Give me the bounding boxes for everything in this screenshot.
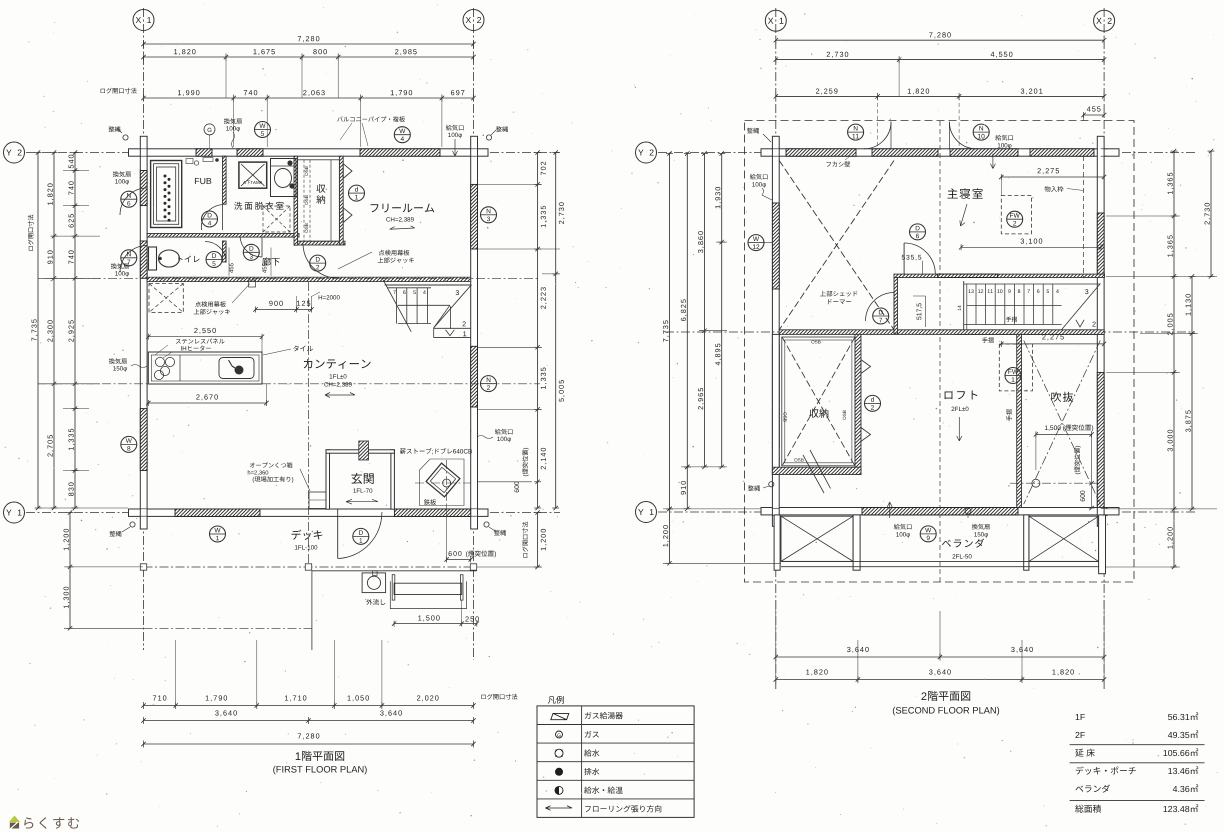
2F dimension 455 top right [1084, 114, 1105, 116]
bottom dim row 3,640/3,640 (1F) [144, 720, 474, 722]
2F exterior wall bottom (Y1) [761, 508, 1119, 515]
2F wall bedroom/stair horizontal [894, 274, 1105, 277]
legend symbol gas [556, 731, 563, 738]
1F storage OSB labels [305, 166, 308, 175]
2F dim 2,275 stair bottom [1042, 334, 1064, 340]
2F air inlet left label [750, 174, 768, 180]
2F storage label [809, 409, 828, 418]
area table total floor row [1075, 749, 1094, 757]
2F stair winder diagonal [1062, 284, 1101, 330]
2F door D7 [893, 293, 895, 322]
1F deck posts [140, 564, 146, 570]
dimension row 1,820/1,675/800/2,985 (1F) [144, 56, 474, 58]
1F vent fan label top [224, 118, 242, 124]
extension lines from top dims (1F) [233, 98, 235, 147]
1F stove plate label [424, 499, 436, 505]
2F storage door bubble d2 [865, 395, 881, 411]
1F kitchen room label [304, 359, 371, 369]
2F storage outer walls [772, 334, 779, 474]
1F window deck side (W1) [175, 509, 260, 516]
1F survey marker top-right [496, 126, 508, 132]
legend table frame [537, 706, 694, 818]
2F exterior wall right [1097, 136, 1104, 526]
grid axis Y1 (1F) [26, 512, 560, 514]
2F module dashed line 455 offset [1083, 156, 1085, 278]
1F kitchen burners [155, 357, 164, 366]
2F dimension 7,280 top [776, 39, 1104, 41]
2F left dim column 7,735/1,200 [669, 154, 671, 509]
1F deck door [337, 509, 339, 559]
1F toilet room label [178, 256, 199, 263]
right sub dim 600 chimney (1F) [534, 481, 541, 483]
2F window bubble N10 [973, 124, 989, 140]
2F dim 2,275 bedroom [1001, 176, 1104, 178]
1F window bubble N2 [481, 376, 497, 392]
2F wall stair bottom [955, 333, 1104, 335]
1F module line kitchen (dash-dot) [38, 383, 540, 385]
1F exterior wall left [140, 136, 147, 529]
1F stair treads [396, 288, 398, 324]
2F storage X brace [782, 337, 855, 466]
1F survey marker top-left [109, 126, 121, 132]
2F survey marker bottom-left [748, 485, 760, 491]
2F veranda bottom rail [781, 560, 1099, 562]
title 1F plan [296, 751, 344, 761]
1F corridor dim 455 right [262, 263, 266, 273]
1F kitchen counter [148, 352, 262, 384]
label log opening size (1F left, rotated) [28, 215, 34, 251]
2F right dim column 1,365/1,365/2,005/3,000/1,200 [1173, 151, 1175, 567]
dimension row 1,990/740/2,063/1,790/697 (1F) [144, 97, 474, 99]
dimension 7,280 top (1F) [144, 43, 474, 45]
2F top wall windows [786, 149, 856, 156]
1F bottom wall hatch right segment [394, 509, 470, 516]
2F dim 3,100 bedroom [961, 246, 1101, 248]
2F chimney dim 1,500 [1045, 424, 1093, 431]
2F dimension 2,730/4,550 [776, 59, 1104, 61]
1F deck door bubble D1 [353, 528, 369, 544]
1F outdoor sink label [366, 599, 385, 605]
1F window freeroom right (N3) [471, 184, 478, 249]
1F storage door label d1 [349, 185, 365, 201]
1F stair down arrow [446, 330, 455, 336]
legend text drainage [584, 768, 599, 775]
legend title [548, 696, 564, 704]
1F window bubble N6 [121, 191, 137, 207]
grid axis Y1 (2F) [658, 511, 1195, 513]
axis bubble Y2 (1F) [4, 142, 25, 163]
1F freeroom label [371, 204, 435, 213]
1F FUB door D4 [201, 205, 222, 230]
2F storage OSB labels [811, 340, 820, 343]
1F vent fan label left (toilet) [111, 263, 129, 269]
2F air inlet top label [995, 135, 1013, 141]
2F veranda right panel [1029, 516, 1099, 561]
legend symbol hot and cold water [555, 786, 563, 794]
2F exterior wall left [772, 136, 779, 526]
2F stair bottom handrail label [982, 337, 994, 343]
legend text gas water heater [585, 712, 623, 719]
axis bubble X1 (1F) [133, 10, 154, 31]
grid axis X2 (2F) [1103, 8, 1105, 690]
1F small window FUB top [196, 149, 212, 156]
2F closet bubble FW2 [1007, 211, 1023, 227]
2F veranda vent fan label [972, 524, 990, 530]
1F exterior wall right [471, 136, 478, 529]
1F outdoor sink [362, 573, 386, 593]
area table rule 3 [1070, 800, 1205, 802]
1F wall toilet right [223, 241, 227, 262]
2F dormer label [820, 291, 857, 297]
area table rule 1 [1070, 744, 1205, 746]
1F vent fan label left (FUB) [113, 171, 131, 177]
1F kitchen tile label [293, 345, 312, 351]
area table 2F row [1075, 732, 1084, 738]
1F exterior wall bottom [129, 509, 489, 516]
2F storage inner lining [782, 337, 855, 466]
2F bottom dim extension lines [939, 611, 941, 657]
2F void label [1051, 392, 1073, 402]
2F void X dash-dot [1024, 340, 1101, 504]
1F shoe box [309, 492, 326, 509]
1F washbasin [271, 159, 297, 197]
1F deck window bubble W1 [210, 526, 226, 542]
1F kitchen sink [219, 358, 254, 379]
axis bubble X2 (2F) [1094, 10, 1115, 31]
2F right wall window (void) [1097, 372, 1104, 507]
1F washroom dashed cabinet [263, 206, 290, 232]
1F inspection hatch dashed box [149, 284, 183, 313]
left dim column 1,820/910/2,300/2,705 (1F) [53, 153, 55, 509]
1F left side extension lines [63, 170, 89, 172]
2F stair top edge [964, 283, 1101, 285]
area table deck/porch row [1076, 767, 1136, 775]
2F loft closet dashed box FW1 [999, 344, 1032, 391]
2F fukashi wall label [826, 161, 850, 166]
2F stair handrail [967, 305, 1062, 307]
1F hatch inspection label (freeroom) [379, 250, 410, 256]
legend text hot/cold water [584, 787, 623, 794]
1F storage closet interior [298, 160, 340, 241]
1F corridor dim 455 left [229, 263, 233, 273]
1F hatch inspection label (corridor) [195, 301, 226, 307]
2F left dim column 3,860/2,965 [704, 154, 706, 467]
1F wood stove label [400, 448, 472, 454]
2F chimney mark [1032, 479, 1040, 487]
axis bubble X2 (1F) [463, 10, 484, 31]
left dim column 7,735 (1F) [37, 153, 39, 509]
1F deck side extension lines [64, 566, 143, 568]
1F stair mid lines [398, 304, 450, 306]
axis bubble Y2 (2F) [636, 142, 657, 163]
1F wall washroom/storage divider [294, 156, 298, 245]
2F survey marker top-left [747, 128, 759, 134]
2F right side extension lines [1106, 215, 1180, 217]
area table total area row [1075, 805, 1101, 813]
1F wall storage/freeroom divider [339, 156, 343, 245]
1F window freeroom top (W4) [360, 149, 440, 156]
1F window kitchen left (W8) [140, 409, 147, 471]
1F kitchen labels stainless/IH [176, 338, 225, 343]
legend symbol water supply [555, 749, 563, 757]
2F module line horizontal (dash-dot) [665, 331, 1195, 333]
1F corridor label [262, 257, 280, 265]
1F deck lower extension [312, 570, 477, 572]
right dim column 702/1,335/2,223/1,335/2,140 (1F) [537, 153, 539, 509]
logo text rakusumu [24, 817, 79, 829]
1F corridor door D2 [303, 244, 339, 278]
1F kitchen vent fan label [109, 358, 127, 364]
1F kitchen dim 2,550 [148, 336, 262, 338]
2F corner log crosses [772, 148, 779, 150]
logo house icon base [10, 823, 19, 829]
1F wall FUB/washroom divider [223, 156, 227, 204]
2F title [921, 691, 970, 701]
left dim 1,200/1,300 deck (1F) [69, 513, 71, 629]
1F exterior wall top [129, 149, 489, 156]
axis bubble X1 (2F) [765, 10, 786, 31]
1F interior wall below FUB/washroom [147, 234, 299, 238]
1F balcony pipe label [337, 116, 405, 122]
2F wall left room / bedroom stub [894, 278, 898, 335]
1F bench dims 1,500 / 250 [418, 615, 439, 621]
bottom dim 7,280 (1F) [144, 743, 474, 745]
1F air inlet right label [495, 429, 513, 435]
2F roof outline dashed [745, 121, 1135, 583]
2F veranda label [942, 539, 984, 548]
1F entrance label [351, 473, 373, 484]
1F shoe box label [250, 462, 293, 468]
2F window bubble N11 [848, 124, 864, 140]
2F bottom dim row 3,640/3,640 [776, 656, 1104, 658]
2F veranda side posts [853, 515, 860, 570]
2F left wall windows [772, 203, 779, 289]
2F veranda window bubble W9 [920, 526, 936, 542]
2F right dim column 1,130/3,875 [1191, 276, 1193, 509]
2F right dim column 2,730 [1210, 151, 1212, 276]
2F loft label [945, 390, 978, 399]
1F window bubble W8 [121, 436, 137, 452]
label log opening size (1F bottom) [481, 694, 517, 700]
1F gas meter bubble G [204, 124, 215, 135]
label log opening size (1F top) [101, 88, 137, 94]
2F left dim column 6,825 [686, 154, 688, 467]
grid axis X1 (1F) [143, 8, 145, 650]
1F stair height note H=2000 [319, 295, 340, 299]
grid axis Y2 (1F) [26, 152, 560, 154]
2F veranda left panel [781, 516, 853, 561]
1F stair lower box [433, 328, 435, 338]
axis bubble Y1 (1F) [4, 502, 25, 523]
1F freeroom floor direction arrow [390, 226, 415, 230]
2F module line vertical center (dashed) [939, 121, 941, 582]
1F window FUB left (N6) [140, 171, 147, 206]
2F extension lines from top dims [877, 96, 879, 148]
2F dormer X brace [779, 161, 894, 330]
1F storage room label (vertical) [317, 184, 326, 193]
legend symbol drainage [555, 768, 563, 776]
1F corridor bottom band [147, 277, 471, 281]
legend text water supply [584, 749, 599, 756]
axis bubble Y1 (2F) [636, 502, 657, 523]
1F right side extension lines [478, 183, 542, 185]
1F FUB fixtures top [186, 159, 193, 164]
2F bottom wall window hatch [862, 508, 1018, 515]
1F corner log cross marks [140, 148, 147, 150]
1F toilet door D5 [205, 241, 226, 262]
1F toilet fixture [149, 247, 157, 270]
2F dim 535.5 [902, 255, 922, 261]
1F entrance black post [359, 441, 369, 460]
2F dimension 2,259/1,820/3,201 [776, 95, 1104, 97]
area table 1F row [1076, 714, 1085, 720]
2F left dim column 1,930/4,895/910 [721, 154, 723, 467]
1F interior wall below storage [296, 241, 345, 245]
1F deck bottom edge [144, 566, 474, 568]
1F garden bench [394, 583, 462, 594]
legend text flooring direction [585, 805, 661, 812]
logo house icon roof [9, 816, 20, 823]
1F module line vertical center (dash-dot) [308, 282, 310, 567]
grid axis X2 (1F) [473, 8, 475, 660]
1F stair diagonals [383, 280, 411, 332]
1F stove hearth outline [420, 459, 465, 506]
1F chimney dim 600 horizontal [449, 551, 462, 556]
2F dim 517.5 [917, 303, 923, 319]
right dim 1,200 deck (1F) [537, 513, 539, 568]
1F kitchen dim 2,670 [148, 402, 266, 404]
1F air inlet label top-right [446, 125, 464, 131]
1F stove chimney mark [443, 479, 451, 487]
1F window bubble W5 [255, 122, 271, 138]
1F deck label [291, 530, 322, 540]
1F window bubble W4 [394, 127, 410, 143]
1F washroom door D3 [240, 237, 262, 258]
2F left side extension lines [716, 241, 727, 243]
2F stair left boundary [963, 281, 965, 330]
grid axis Y2 (2F) [658, 152, 1195, 154]
right dim column 2,730/5,005 (1F) [555, 153, 557, 509]
grid axis X1 (2F) [775, 8, 777, 690]
2F bedroom label [947, 188, 982, 199]
1F kitchen floor arrow [325, 393, 355, 398]
2F storage door marks [861, 360, 871, 374]
2F wall loft/void divider [1017, 334, 1022, 507]
legend text gas [585, 731, 599, 738]
1F window kitchen right (N2) [471, 346, 478, 407]
1F bathtub [151, 161, 182, 228]
extension lines bottom dims (1F) [175, 640, 177, 706]
2F exterior wall top [761, 149, 1119, 156]
1F stair landing lines [385, 284, 472, 286]
2F chimney dim 600 vertical [1091, 434, 1093, 508]
2F handrail label (loft/void wall) [1006, 409, 1012, 421]
2F bottom dim row 1,820/3,640/1,820 [776, 679, 1104, 681]
2F closet dashed box [1001, 195, 1031, 234]
1F washing machine [239, 162, 267, 188]
1F dim 900/125 under corridor [269, 301, 283, 306]
left dim column 540/740/625/740/2,925/1,335/830 (1F) [74, 153, 76, 509]
1F survey marker bottom-right [494, 530, 506, 536]
1F window toilet left (N7) [140, 241, 147, 278]
1F module line corridor (dash-dot) [44, 277, 540, 279]
area table rule 2 [1070, 762, 1205, 764]
2F wall mid module horizontal [779, 330, 1104, 335]
1F FUB room label [195, 178, 211, 184]
1F entrance floor arrow [346, 499, 378, 504]
2F closet label [1045, 186, 1064, 192]
2F stair bottom edge [964, 324, 1062, 326]
1F window bubble N3 [481, 207, 497, 223]
bottom dim row 710/1,790/1,710/1,050/2,020 (1F) [144, 705, 474, 707]
2F bedroom door D6 [903, 243, 905, 274]
2F window bubble W12 [748, 235, 764, 251]
legend symbol gas water heater [551, 713, 569, 719]
2F storage ladder line [810, 450, 831, 488]
1F window washroom top (W5) [237, 149, 263, 156]
1F washroom label [234, 202, 283, 210]
1F storage bifold door triangles [343, 164, 352, 179]
2F stair down arrow [1076, 320, 1084, 327]
2F veranda air inlet label [894, 524, 912, 530]
1F wood stove body [426, 463, 460, 497]
1F survey marker bottom-left [110, 531, 122, 537]
legend symbol flooring direction arrow [546, 806, 573, 811]
2F stair treads [975, 284, 977, 325]
area table veranda row [1075, 785, 1109, 793]
1F window bubble N7 [121, 250, 137, 266]
1F entrance room walls [326, 450, 330, 509]
